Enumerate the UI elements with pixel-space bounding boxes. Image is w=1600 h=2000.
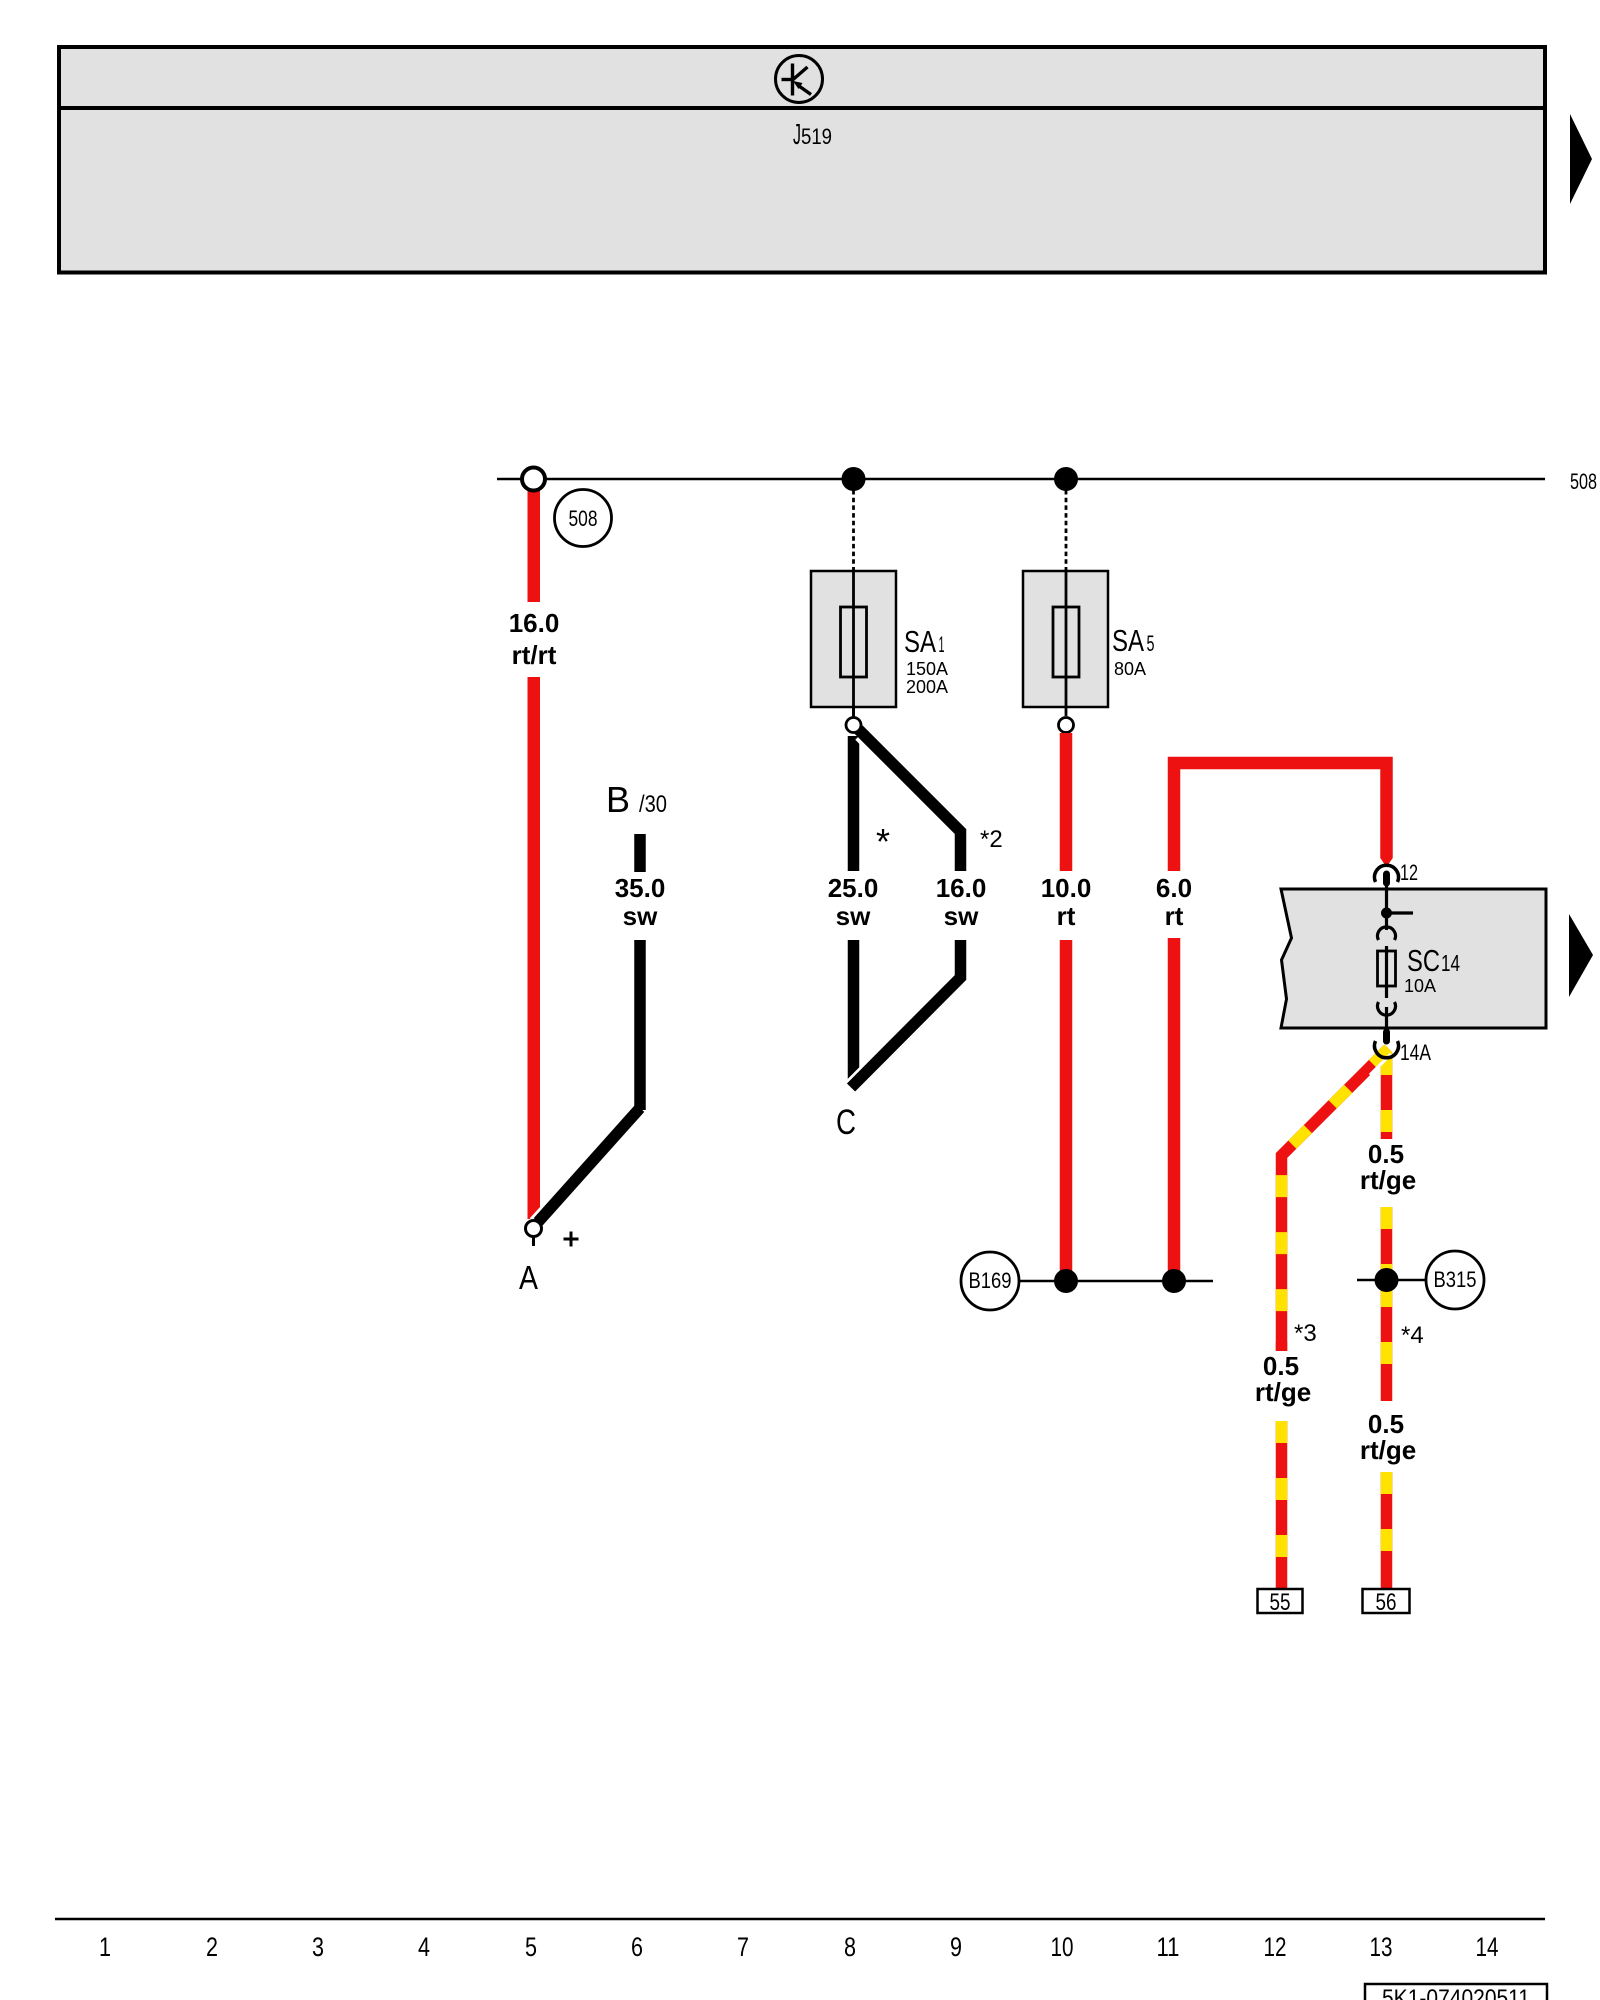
svg-text:11: 11	[1157, 1932, 1180, 1962]
svg-text:rt/ge: rt/ge	[1360, 1165, 1416, 1195]
svg-text:200A: 200A	[906, 677, 948, 697]
svg-text:*4: *4	[1401, 1322, 1424, 1349]
svg-text:508: 508	[569, 506, 598, 531]
svg-text:9: 9	[950, 1932, 962, 1962]
svg-text:7: 7	[737, 1932, 749, 1962]
svg-text:10: 10	[1051, 1932, 1074, 1962]
svg-text:519: 519	[801, 124, 832, 149]
svg-text:5K1-074020511: 5K1-074020511	[1382, 1985, 1530, 2000]
svg-text:35.0: 35.0	[615, 873, 666, 903]
svg-text:12: 12	[1400, 860, 1418, 885]
svg-text:8: 8	[844, 1932, 856, 1962]
svg-text:rt: rt	[1165, 901, 1184, 931]
svg-text:3: 3	[312, 1932, 324, 1962]
svg-text:25.0: 25.0	[828, 873, 879, 903]
svg-text:J: J	[793, 119, 801, 151]
svg-text:5: 5	[525, 1932, 537, 1962]
svg-text:10.0: 10.0	[1041, 873, 1092, 903]
svg-text:sw: sw	[623, 901, 658, 931]
svg-text:5: 5	[1147, 631, 1155, 656]
svg-text:80A: 80A	[1114, 659, 1146, 679]
svg-text:C: C	[836, 1103, 856, 1142]
svg-text:14: 14	[1441, 950, 1460, 976]
svg-text:6.0: 6.0	[1156, 873, 1192, 903]
svg-text:1: 1	[99, 1932, 111, 1962]
svg-text:14: 14	[1476, 1932, 1499, 1962]
svg-text:rt/ge: rt/ge	[1360, 1435, 1416, 1465]
svg-text:/30: /30	[639, 791, 667, 818]
svg-text:B315: B315	[1434, 1267, 1477, 1292]
svg-text:sw: sw	[836, 901, 871, 931]
svg-text:508: 508	[1570, 469, 1597, 494]
svg-text:10A: 10A	[1404, 976, 1436, 996]
svg-text:1: 1	[939, 632, 945, 657]
svg-text:2: 2	[206, 1932, 218, 1962]
svg-text:SA: SA	[1112, 623, 1144, 658]
svg-text:16.0: 16.0	[509, 608, 560, 638]
svg-text:A: A	[519, 1259, 538, 1296]
svg-text:*3: *3	[1294, 1320, 1317, 1347]
svg-text:SA: SA	[904, 624, 936, 659]
svg-text:14A: 14A	[1400, 1040, 1431, 1065]
svg-text:6: 6	[631, 1932, 643, 1962]
svg-text:55: 55	[1270, 1589, 1291, 1616]
svg-text:16.0: 16.0	[936, 873, 987, 903]
svg-text:12: 12	[1264, 1932, 1287, 1962]
svg-text:*: *	[876, 821, 890, 862]
svg-text:rt: rt	[1057, 901, 1076, 931]
svg-text:B169: B169	[969, 1268, 1012, 1293]
svg-text:sw: sw	[944, 901, 979, 931]
svg-text:*2: *2	[980, 826, 1003, 853]
svg-text:13: 13	[1370, 1932, 1393, 1962]
svg-text:rt/rt: rt/rt	[512, 640, 557, 670]
svg-text:4: 4	[418, 1932, 430, 1962]
svg-text:B: B	[606, 779, 630, 820]
svg-text:rt/ge: rt/ge	[1255, 1377, 1311, 1407]
svg-text:150A: 150A	[906, 659, 948, 679]
svg-text:SC: SC	[1407, 943, 1440, 978]
svg-text:56: 56	[1376, 1589, 1397, 1616]
